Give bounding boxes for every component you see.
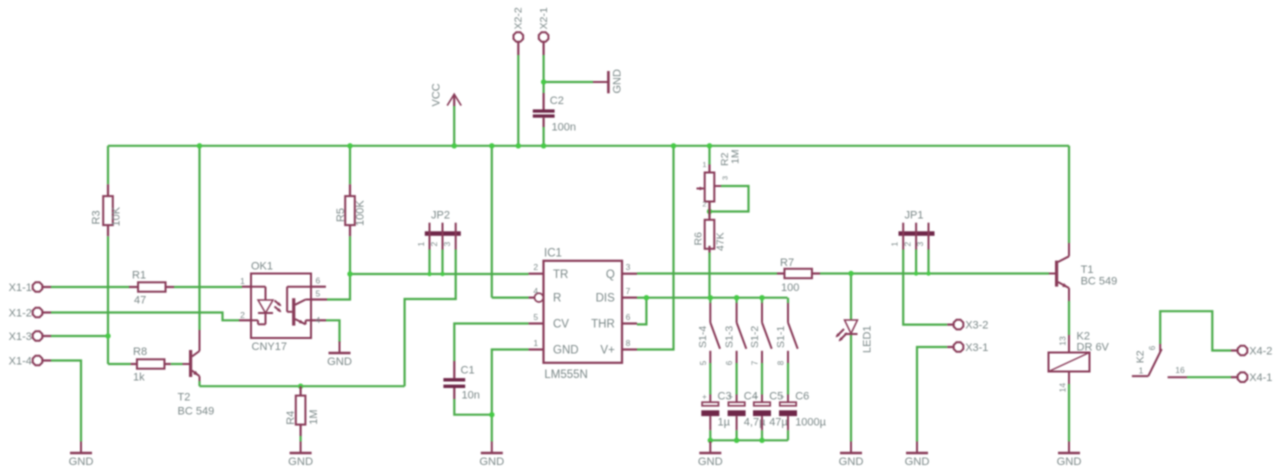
svg-text:X2-2: X2-2 bbox=[513, 7, 525, 29]
svg-text:K2: K2 bbox=[1135, 350, 1147, 363]
svg-text:T1: T1 bbox=[1081, 264, 1094, 276]
wire X2-2 to bus bbox=[517, 55, 519, 146]
wire T1 emitter to relay bbox=[1068, 301, 1070, 335]
wire LED anode bbox=[850, 274, 852, 320]
svg-text:IC1: IC1 bbox=[544, 247, 562, 259]
svg-text:100K: 100K bbox=[355, 200, 367, 226]
wire JP1 pin1 to X3-2 bbox=[903, 250, 947, 325]
svg-text:1: 1 bbox=[240, 276, 245, 286]
svg-text:+: + bbox=[754, 392, 759, 401]
wire bus to T1 collector bbox=[1068, 146, 1070, 243]
svg-text:1k: 1k bbox=[133, 372, 145, 384]
switch S1-3 bbox=[723, 303, 746, 365]
junction switch node bbox=[759, 295, 764, 300]
junction JP2 pin1 bbox=[427, 272, 431, 276]
svg-text:1000µ: 1000µ bbox=[795, 417, 826, 429]
LED LED1 bbox=[836, 320, 874, 353]
wire X1-4 to GND bbox=[51, 361, 81, 442]
junction on bus bbox=[452, 143, 457, 148]
relay contact K2 bbox=[1132, 344, 1187, 377]
wire R6 to DIS line bbox=[708, 253, 710, 298]
wire JP1 pin2 drop bbox=[915, 250, 917, 274]
wire VCC stem bbox=[453, 106, 455, 146]
capacitor C6 bbox=[779, 391, 827, 431]
wire bus to IC1 pin4 bbox=[492, 146, 529, 298]
junction on bus bbox=[489, 143, 494, 148]
wire capacitor bottom bbox=[787, 430, 789, 440]
wire JP2 pin1 drop bbox=[428, 250, 430, 275]
svg-text:X1-1: X1-1 bbox=[9, 282, 32, 294]
wire switch to capacitor bbox=[735, 363, 737, 395]
svg-text:3: 3 bbox=[442, 242, 452, 247]
op-amp timer IC1 LM555N bbox=[529, 247, 637, 381]
pin 3 bbox=[928, 223, 930, 250]
svg-text:1: 1 bbox=[1139, 365, 1144, 375]
svg-text:X3-1: X3-1 bbox=[965, 342, 988, 354]
svg-text:GND: GND bbox=[288, 456, 313, 468]
svg-text:X2-1: X2-1 bbox=[538, 7, 550, 29]
svg-text:GND: GND bbox=[327, 356, 352, 368]
wire X1-1 to R1 bbox=[51, 286, 129, 288]
wire GND node down bbox=[491, 415, 493, 442]
svg-text:+: + bbox=[702, 392, 707, 401]
wire bus to T2 collector bbox=[198, 146, 200, 330]
wire R5 to TR node bbox=[349, 236, 351, 274]
svg-text:X1-3: X1-3 bbox=[9, 331, 32, 343]
wire Vplus to bus bbox=[637, 146, 674, 350]
resistor R8 bbox=[131, 346, 171, 384]
connector pad X1-1 bbox=[9, 282, 51, 294]
wire rail to GND bbox=[709, 440, 711, 441]
svg-text:R3: R3 bbox=[91, 210, 103, 224]
wire IC1 CV to C1 bbox=[454, 324, 528, 362]
svg-text:X4-1: X4-1 bbox=[1249, 372, 1272, 384]
svg-text:BC 549: BC 549 bbox=[178, 406, 215, 418]
svg-text:CV: CV bbox=[553, 319, 569, 331]
wire R2 wiper loop bbox=[710, 186, 749, 212]
pin 2 bbox=[915, 223, 917, 250]
wire DIS stub bbox=[637, 297, 646, 299]
svg-text:GND: GND bbox=[553, 345, 579, 357]
svg-text:S1-1: S1-1 bbox=[775, 326, 787, 348]
ground bbox=[288, 442, 313, 468]
wire DIS line to switches bbox=[646, 297, 787, 299]
svg-text:14: 14 bbox=[1058, 383, 1068, 393]
connector pad X1-2 bbox=[9, 307, 51, 319]
svg-text:X4-2: X4-2 bbox=[1249, 345, 1272, 357]
svg-text:GND: GND bbox=[698, 456, 723, 468]
junction switch node bbox=[708, 295, 713, 300]
resistor R6 bbox=[693, 217, 727, 253]
connector pad X1-4 bbox=[9, 355, 51, 367]
wire DIS-THR loop bbox=[637, 298, 646, 325]
junction DIS loop bbox=[644, 295, 649, 300]
svg-text:16: 16 bbox=[1175, 365, 1185, 375]
wire C1 to GND node bbox=[454, 399, 492, 415]
svg-text:2: 2 bbox=[903, 242, 913, 247]
pin 1 bbox=[902, 223, 904, 250]
capacitor C4 bbox=[728, 391, 766, 431]
svg-text:5: 5 bbox=[316, 289, 321, 299]
svg-text:3: 3 bbox=[721, 176, 730, 180]
wire R1 to OK1 pin1 bbox=[174, 286, 242, 288]
svg-text:4: 4 bbox=[316, 315, 321, 325]
wire switch to capacitor bbox=[787, 363, 789, 395]
wire X1-3 to R3 line bbox=[51, 335, 108, 337]
junction capacitor rail bbox=[734, 438, 739, 443]
junction C1 GND node bbox=[489, 412, 494, 417]
wire capacitor bottom bbox=[735, 430, 737, 440]
svg-text:8: 8 bbox=[777, 360, 786, 365]
jumper JP1 bbox=[890, 209, 935, 249]
capacitor C1 bbox=[443, 361, 479, 402]
junction JP1 pin2 bbox=[914, 271, 918, 275]
wire capacitor bottom bbox=[709, 430, 711, 440]
svg-text:R6: R6 bbox=[693, 232, 705, 246]
svg-text:OK1: OK1 bbox=[251, 261, 273, 273]
connector pad X3-1 bbox=[947, 342, 988, 354]
ground bbox=[479, 442, 504, 468]
svg-text:5: 5 bbox=[699, 360, 708, 365]
svg-text:6: 6 bbox=[626, 312, 631, 322]
svg-text:1: 1 bbox=[702, 160, 706, 169]
wire JP1 pin3 drop bbox=[927, 250, 929, 274]
pin 1 bbox=[242, 286, 251, 288]
svg-text:GND: GND bbox=[612, 69, 624, 94]
svg-text:VCC: VCC bbox=[431, 83, 443, 106]
ground bbox=[69, 442, 94, 468]
svg-text:4: 4 bbox=[533, 286, 538, 296]
switch S1-2 bbox=[749, 303, 772, 365]
wire X3-1 to GND bbox=[917, 347, 947, 442]
connector pad X4-2 bbox=[1231, 345, 1272, 357]
pin 5 bbox=[311, 298, 327, 300]
wire X2-1 to GND tap bbox=[544, 81, 593, 83]
wire bus to R5 bbox=[349, 146, 351, 185]
svg-text:GND: GND bbox=[1057, 456, 1082, 468]
wire LED cathode to GND bbox=[850, 334, 852, 442]
wire contact 16 to X4-1 bbox=[1187, 376, 1231, 378]
svg-text:+: + bbox=[780, 392, 785, 401]
svg-text:GND: GND bbox=[479, 456, 504, 468]
wire TR node to OK1 pin5 bbox=[327, 274, 350, 300]
svg-text:R: R bbox=[553, 293, 561, 305]
svg-text:C1: C1 bbox=[461, 364, 475, 376]
wire capacitor GND rail bbox=[710, 439, 788, 441]
capacitor C5 bbox=[753, 391, 788, 431]
svg-text:THR: THR bbox=[591, 319, 615, 331]
svg-text:LM555N: LM555N bbox=[544, 369, 587, 381]
wire C2 to bus bbox=[542, 127, 544, 146]
junction JP1 pin3 bbox=[926, 271, 930, 275]
potentiometer R2 bbox=[697, 149, 742, 216]
resistor R4 bbox=[285, 386, 320, 436]
wire TR line bbox=[350, 273, 529, 275]
resistor R3 bbox=[91, 184, 123, 236]
junction X2-1 GND tap bbox=[541, 79, 546, 84]
pin 2 bbox=[239, 319, 251, 321]
wire JP2 pin2 drop bbox=[441, 250, 443, 275]
svg-text:GND: GND bbox=[905, 456, 930, 468]
svg-text:LED1: LED1 bbox=[861, 325, 873, 353]
svg-text:1M: 1M bbox=[308, 410, 320, 425]
wire R3 to R8 row bbox=[108, 236, 131, 364]
svg-text:GND: GND bbox=[839, 456, 864, 468]
transistor T1 bbox=[1049, 243, 1117, 301]
svg-text:3: 3 bbox=[915, 242, 925, 247]
svg-text:6: 6 bbox=[725, 360, 734, 365]
svg-text:1M: 1M bbox=[729, 149, 741, 164]
ground bbox=[327, 342, 352, 368]
svg-text:X1-4: X1-4 bbox=[9, 355, 32, 367]
jumper JP2 bbox=[416, 209, 461, 249]
svg-text:1: 1 bbox=[533, 338, 538, 348]
junction on bus bbox=[707, 143, 712, 148]
svg-text:6: 6 bbox=[316, 276, 321, 286]
wire contact to X4-2 bbox=[1160, 311, 1231, 350]
wire R4 to GND bbox=[300, 436, 302, 442]
pin 1 bbox=[429, 223, 431, 250]
junction TR node bbox=[347, 271, 352, 276]
wire X2-1 to C2 bbox=[542, 55, 544, 93]
pin 4 bbox=[311, 319, 326, 321]
svg-text:Q: Q bbox=[606, 269, 615, 281]
pin 2 bbox=[442, 223, 444, 250]
junction on bus bbox=[516, 143, 521, 148]
svg-text:2: 2 bbox=[702, 200, 706, 209]
junction capacitor rail bbox=[759, 438, 764, 443]
svg-text:+: + bbox=[728, 392, 733, 401]
svg-text:C2: C2 bbox=[550, 95, 564, 107]
ground bbox=[1057, 442, 1082, 468]
relay coil K2 bbox=[1049, 331, 1110, 393]
svg-text:DIS: DIS bbox=[596, 293, 616, 305]
connector pad X3-2 bbox=[947, 319, 988, 331]
svg-text:7: 7 bbox=[626, 286, 631, 296]
svg-text:V+: V+ bbox=[600, 345, 615, 357]
svg-text:R8: R8 bbox=[133, 346, 147, 358]
wire switch to capacitor bbox=[761, 363, 763, 395]
resistor R7 bbox=[777, 257, 820, 294]
wire switch to capacitor bbox=[709, 363, 711, 395]
svg-text:JP1: JP1 bbox=[905, 209, 924, 221]
svg-text:CNY17: CNY17 bbox=[252, 341, 287, 353]
wire JP2 pin3 to emitter net bbox=[405, 250, 456, 387]
svg-text:JP2: JP2 bbox=[431, 209, 450, 221]
junction capacitor rail bbox=[708, 438, 713, 443]
junction on bus bbox=[197, 143, 202, 148]
svg-text:100n: 100n bbox=[552, 122, 576, 134]
wire VCC bus bbox=[108, 145, 1069, 147]
junction R4 node bbox=[298, 384, 303, 389]
svg-text:1: 1 bbox=[890, 242, 900, 247]
junction LED node bbox=[848, 271, 853, 276]
junction X1-3 node bbox=[105, 333, 110, 338]
svg-text:47K: 47K bbox=[715, 232, 727, 251]
wire Q to R7 bbox=[637, 272, 777, 274]
svg-text:2: 2 bbox=[429, 242, 439, 247]
junction on bus bbox=[541, 143, 546, 148]
wire DIS line to S1-1 bbox=[787, 298, 789, 303]
svg-text:2: 2 bbox=[240, 310, 245, 320]
ground bbox=[593, 69, 624, 94]
svg-text:2: 2 bbox=[533, 262, 538, 272]
wire bus to R2 bbox=[708, 146, 710, 165]
switch S1-1 bbox=[775, 303, 798, 365]
svg-text:R1: R1 bbox=[132, 269, 146, 281]
switch S1-4 bbox=[697, 303, 720, 365]
svg-text:R7: R7 bbox=[780, 257, 794, 269]
svg-text:GND: GND bbox=[69, 456, 94, 468]
pin 3 bbox=[455, 223, 457, 250]
svg-text:R4: R4 bbox=[285, 411, 297, 425]
svg-text:47µ: 47µ bbox=[769, 417, 788, 429]
svg-text:C6: C6 bbox=[795, 391, 809, 403]
svg-text:1µ: 1µ bbox=[718, 417, 731, 429]
svg-text:7: 7 bbox=[751, 360, 760, 365]
pin 6 bbox=[311, 286, 326, 288]
svg-text:8: 8 bbox=[626, 338, 631, 348]
svg-text:10K: 10K bbox=[110, 206, 122, 226]
svg-text:R5: R5 bbox=[335, 208, 347, 222]
svg-text:100: 100 bbox=[781, 282, 799, 294]
svg-text:T2: T2 bbox=[178, 391, 191, 403]
svg-text:3: 3 bbox=[626, 262, 631, 272]
svg-text:X1-2: X1-2 bbox=[9, 307, 32, 319]
wire DIS line to switch bbox=[735, 298, 737, 303]
svg-text:47: 47 bbox=[134, 295, 146, 307]
ground bbox=[698, 442, 723, 468]
junction on bus bbox=[671, 143, 676, 148]
junction switch node bbox=[734, 295, 739, 300]
wire R2 to R6 bbox=[708, 202, 710, 217]
svg-text:BC 549: BC 549 bbox=[1081, 275, 1118, 287]
wire R8 to T2 bbox=[171, 363, 183, 365]
ground bbox=[905, 442, 930, 468]
wire bus to R3 bbox=[107, 146, 109, 185]
wire relay to GND bbox=[1068, 384, 1070, 442]
svg-text:5: 5 bbox=[533, 312, 538, 322]
wire R7 to T1 base bbox=[820, 272, 1049, 274]
connector pad X4-1 bbox=[1231, 372, 1272, 384]
resistor R1 bbox=[129, 269, 174, 306]
VCC symbol bbox=[431, 83, 462, 106]
svg-text:S1-2: S1-2 bbox=[749, 326, 761, 348]
ground bbox=[839, 442, 864, 468]
wire DIS line to switch bbox=[761, 298, 763, 303]
svg-text:1: 1 bbox=[416, 242, 426, 247]
wire T2 emitter rail bbox=[200, 381, 405, 386]
capacitor C2 bbox=[533, 93, 576, 134]
svg-text:6: 6 bbox=[1148, 345, 1157, 350]
svg-text:DR 6V: DR 6V bbox=[1077, 342, 1110, 354]
wire OK1 pin4 to GND bbox=[326, 320, 340, 342]
svg-text:S1-3: S1-3 bbox=[723, 326, 735, 348]
transistor T2 bbox=[178, 330, 215, 418]
connector pad X2-1 bbox=[538, 7, 550, 55]
svg-text:S1-4: S1-4 bbox=[697, 326, 709, 348]
junction R2 wiper node bbox=[707, 209, 712, 214]
svg-text:TR: TR bbox=[553, 269, 568, 281]
resistor R5 bbox=[335, 184, 366, 236]
svg-text:10n: 10n bbox=[462, 390, 480, 402]
svg-text:13: 13 bbox=[1058, 336, 1068, 346]
connector pad X2-2 bbox=[513, 7, 525, 55]
junction JP2 pin2 bbox=[440, 272, 444, 276]
wire IC1 GND pin to node bbox=[492, 350, 529, 415]
optocoupler OK1 bbox=[239, 261, 327, 354]
junction on bus bbox=[347, 143, 352, 148]
capacitor C3 bbox=[701, 391, 731, 431]
wire capacitor bottom bbox=[761, 430, 763, 440]
svg-text:X3-2: X3-2 bbox=[965, 319, 988, 331]
wire X1-2 to OK1 pin2 bbox=[51, 313, 239, 321]
wire DIS line to switch bbox=[709, 298, 711, 303]
connector pad X1-3 bbox=[9, 331, 51, 343]
